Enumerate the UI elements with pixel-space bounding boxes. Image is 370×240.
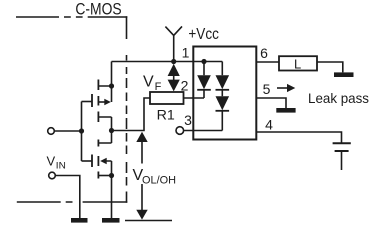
wire pin 5 (256, 98, 286, 108)
terminal pin 3 circle (176, 127, 184, 135)
leak current arrow (277, 84, 295, 92)
svg-text:4: 4 (265, 116, 273, 132)
transistor Q1 (PMOS) (82, 62, 115, 131)
Q2 gate lead (82, 160, 93, 162)
Q1 body arrow (98, 101, 104, 103)
Q2 drain lead (98, 131, 111, 144)
svg-text:L: L (294, 56, 301, 71)
C-MOS region box (dash-dot outline) (16, 16, 127, 18)
Q2 source to ground wire (111, 176, 113, 219)
Q1 channel segments (97, 80, 99, 123)
antenna +Vcc terminal (165, 26, 182, 61)
svg-text:IN: IN (56, 161, 66, 172)
diode D1 (branch A) (197, 62, 211, 99)
svg-text:V: V (143, 74, 154, 91)
diode D3 (branch B lower) (216, 96, 230, 130)
wire L to ground (317, 62, 343, 72)
VF measurement double arrow (168, 64, 180, 92)
ground (after L) (334, 72, 354, 77)
ground (VIN return) (71, 218, 88, 223)
transistor Q2 (NMOS) (82, 131, 115, 219)
node CMOS output junction (109, 128, 114, 133)
resistor R1 (150, 92, 184, 104)
svg-text:1: 1 (182, 45, 190, 61)
ground (pin 5) (276, 108, 295, 113)
wire common gate column (81, 102, 83, 162)
svg-text:R1: R1 (157, 106, 175, 122)
wire pin 4 (256, 132, 341, 143)
wire branch B bottom to pin 3 (184, 130, 223, 132)
input terminal circle (48, 128, 55, 135)
node diode branch A junction (201, 59, 206, 64)
inductor L (279, 56, 317, 70)
svg-text:Leak pass: Leak pass (308, 90, 369, 106)
svg-text:V: V (47, 154, 56, 169)
Q1 source node dot (109, 83, 114, 88)
Q1 gate bar (91, 94, 93, 107)
wire VIN terminal to ground (55, 176, 80, 219)
Q2 channel segments (97, 140, 99, 179)
svg-text:2: 2 (181, 78, 189, 94)
Q2 source lead (98, 175, 111, 177)
Q1 source lead to Vcc (98, 62, 111, 103)
wire input terminal to gates (54, 130, 81, 132)
ground reference line under arrow (125, 220, 172, 222)
op-amp U1 (photocoupler IC box) (193, 47, 256, 140)
diode D2 (branch B upper) (216, 62, 230, 97)
Q2 body arrow (107, 161, 112, 176)
wire pin 6 (256, 61, 279, 63)
label VIN (47, 154, 66, 172)
wire R1 right lead (pin 2) (184, 97, 205, 99)
svg-text:3: 3 (184, 112, 192, 128)
node gate junction (79, 128, 84, 133)
wire Vcc rail (112, 61, 223, 63)
Q1 gate lead (82, 101, 93, 103)
Q1 drain lead (98, 117, 111, 131)
svg-text:+Vcc: +Vcc (188, 26, 219, 43)
capacitor C1 (333, 143, 351, 151)
Q2 gate bar (91, 155, 93, 168)
node antenna/Vcc junction (171, 59, 176, 64)
label VOL/OH (133, 167, 177, 186)
label VF (143, 74, 162, 93)
svg-text:C-MOS: C-MOS (75, 0, 121, 18)
svg-text:5: 5 (263, 81, 271, 97)
terminal VIN circle (49, 172, 56, 179)
ground (NMOS source) (102, 218, 120, 223)
VOL/OH measurement arrow (125, 132, 172, 221)
svg-text:6: 6 (260, 45, 268, 61)
svg-text:OL/OH: OL/OH (142, 174, 176, 186)
Q2 source node dot (109, 173, 114, 178)
wire R1 left lead to CMOS output node (112, 98, 151, 131)
